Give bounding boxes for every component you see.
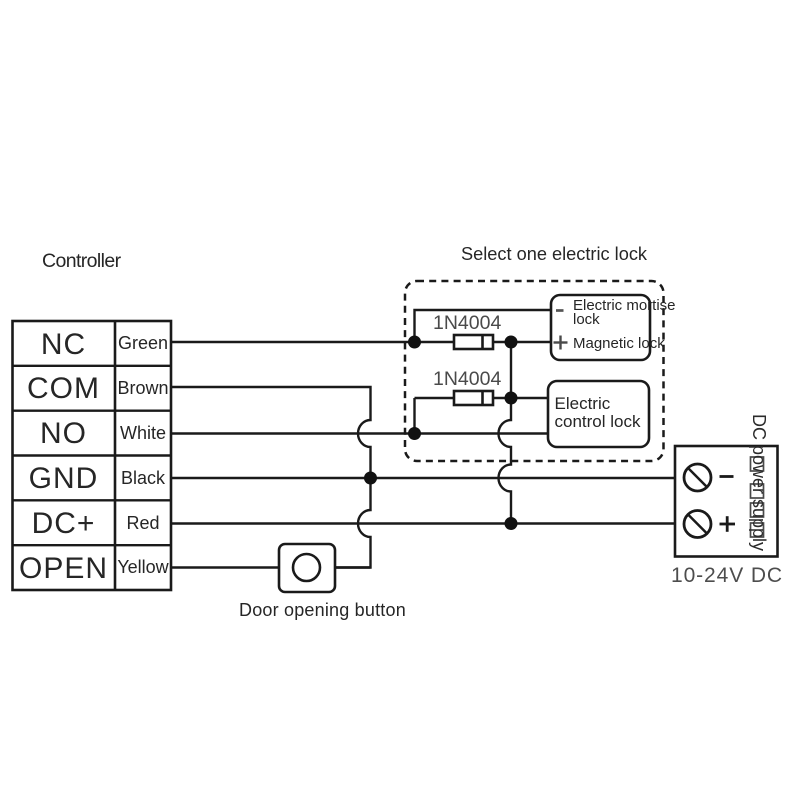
garbled glyph boxes over vertical supply label (751, 457, 764, 537)
minus terminal mark in mortise lock box (556, 309, 564, 312)
electric control lock box (548, 381, 649, 447)
terminal label OPEN (12, 552, 115, 586)
DC power supply terminal block box (675, 446, 778, 557)
label: Electric control lock (555, 395, 641, 430)
label: Select one electric lock (461, 244, 647, 265)
wire button to COM vertical line (335, 566, 371, 568)
label: Electric mortise lock (573, 299, 676, 327)
wire diode D2 right node to control lock top terminal (511, 397, 548, 399)
wire DC+ red: table to power supply plus (171, 522, 685, 524)
door opening button actuator circle (293, 554, 320, 581)
table column divider (114, 321, 117, 590)
plus screw terminal (684, 511, 711, 538)
wire color label Brown (115, 378, 171, 399)
wire OPEN yellow: table to door button (171, 566, 279, 568)
diode D1 1N4004 body (454, 335, 493, 349)
wire node B down to DC+ with hops over NO and GND (498, 398, 511, 524)
label: 10-24V DC (671, 564, 783, 588)
terminal label GND (12, 462, 115, 496)
minus screw terminal (684, 464, 711, 491)
wire color label Green (115, 333, 171, 354)
label: DC power supply (vertical) (748, 414, 769, 551)
label: Door opening button (239, 600, 406, 621)
value label 1N4004 for D2 (433, 368, 501, 391)
door opening button body (279, 544, 335, 592)
junction node at D2 cathode (505, 392, 518, 405)
plus polarity label (720, 516, 736, 532)
dashed selection box (405, 281, 664, 461)
diode D2 cathode band (481, 391, 484, 405)
label: Magnetic lock (573, 335, 665, 352)
wire COM brown: table right then down to button with hop over NO, junction at GND, hop over DC+ (171, 387, 371, 568)
diode D2 1N4004 left lead (415, 397, 455, 399)
junction node at NO / D2 anode (408, 427, 421, 440)
junction node COM line / GND wire (364, 472, 377, 485)
controller terminal block table outline (13, 321, 172, 590)
wire color label Yellow (115, 557, 171, 578)
value label 1N4004 for D1 (433, 312, 501, 335)
wire color label Black (115, 468, 171, 489)
wire color label White (115, 423, 171, 444)
junction node at NC / D1 anode (408, 336, 421, 349)
diode D2 right lead (493, 397, 511, 399)
terminal label COM (12, 372, 115, 406)
wire node A up-branch to mortise lock minus (415, 310, 552, 342)
diode D2 1N4004 body (454, 391, 493, 405)
junction node at D1 cathode (505, 336, 518, 349)
diode D1 right lead (493, 341, 511, 343)
label: Controller (42, 250, 121, 273)
wire NC green: table to node A (171, 341, 415, 343)
wire NO white: table to electric control lock bottom terminal (171, 432, 548, 434)
terminal label NC (12, 328, 115, 362)
minus polarity label (720, 475, 734, 478)
plus terminal mark in magnetic lock box (554, 336, 568, 350)
wire node B vertical between diodes (510, 342, 512, 398)
electric mortise / magnetic lock box (551, 295, 650, 360)
wire GND black: table to power supply minus (171, 477, 685, 479)
table row dividers (13, 366, 172, 545)
diode D1 1N4004 left lead (415, 341, 455, 343)
wire node D2-left down to NO wire (413, 398, 415, 434)
wire node B to magnetic lock plus (511, 341, 551, 343)
terminal label NO (12, 417, 115, 451)
junction node B line / DC+ wire (505, 517, 518, 530)
diode D1 cathode band (481, 335, 484, 349)
wire color label Red (115, 513, 171, 534)
terminal label DC+ (12, 507, 115, 541)
